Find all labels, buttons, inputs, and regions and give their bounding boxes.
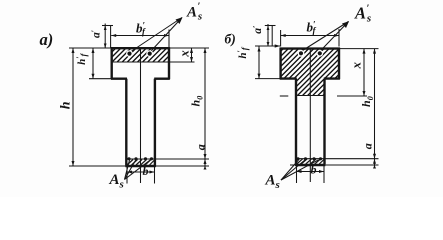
svg-text:b′f: b′f [136,21,146,37]
svg-text:x: x [348,61,363,69]
svg-text:a: a [361,143,375,149]
svg-text:A′s: A′s [354,4,371,25]
svg-text:x: x [176,50,191,58]
svg-text:a: a [194,144,208,150]
svg-text:A′s: A′s [186,2,202,23]
svg-text:б): б) [225,32,236,47]
svg-text:h: h [59,101,74,109]
svg-text:b: b [311,162,317,176]
svg-text:b: b [143,164,149,178]
svg-text:b′f: b′f [307,20,317,36]
svg-text:a): a) [40,30,54,49]
